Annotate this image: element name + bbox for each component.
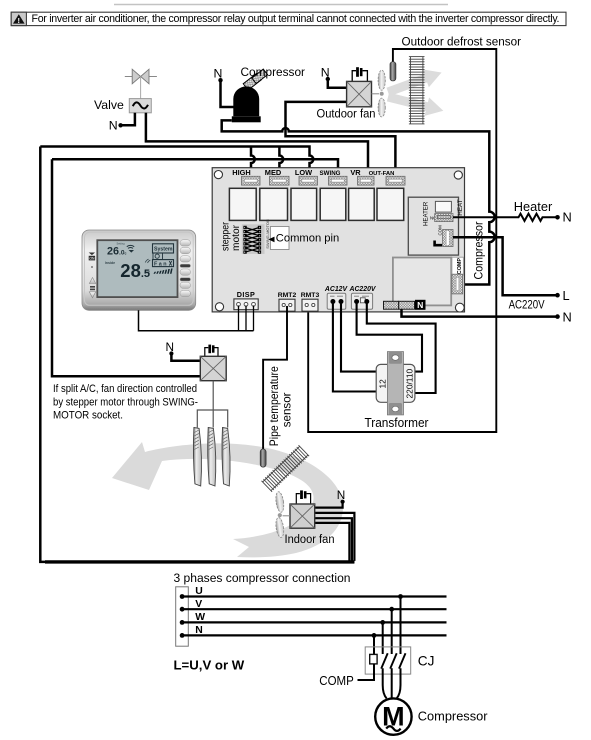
svg-text:Pipe temperature: Pipe temperature [268,366,281,446]
connector SWING-MOTOR (coil header) [242,224,265,254]
svg-text:220/110: 220/110 [404,369,414,399]
svg-text:CJ: CJ [418,653,435,668]
connector RMT2 [279,299,295,311]
label stepper motor (rotated) [221,222,242,251]
svg-text:Compressor: Compressor [418,708,488,723]
outdoor fan capacitor [352,67,367,81]
connector VR [358,176,375,185]
defrost sensor capsule [390,62,396,81]
outdoor fan N terminal [321,65,347,87]
L terminal [555,288,569,303]
stepper motor box [200,356,226,380]
svg-text:N: N [563,210,572,225]
contactor switch W [381,653,388,668]
wire AC220V pin to transformer (inner) [357,302,422,372]
wire U drop [400,597,402,655]
svg-text:For inverter air conditioner,: For inverter air conditioner, the compre… [32,13,560,25]
airflow swoosh arrow [112,442,343,557]
wire compressor to COMP connector [222,120,495,284]
relay K1 [229,188,256,220]
thermostat display unit [82,230,196,310]
wire N to contactor coil [373,635,375,654]
connector NO (heat) [435,214,453,222]
svg-text:by stepper motor through SWING: by stepper motor through SWING- [53,396,198,408]
indoor fan N terminal [315,488,346,508]
wire inner rail to stepper motor [52,159,200,376]
relay K6 [377,188,404,220]
stepper motor capacitor [205,345,218,357]
contactor switch U [399,653,406,668]
wire AC12V left pin to transformer [333,302,376,392]
svg-text:AC220V: AC220V [348,286,376,293]
svg-text:HEATER: HEATER [423,201,430,226]
mounting hole BR [455,303,464,312]
mounting hole TR [454,171,462,179]
svg-text:SWING: SWING [320,170,341,177]
connector AC12V [327,293,346,309]
svg-text:N: N [563,309,572,324]
label Pipe temperature sensor (rotated) [268,366,294,446]
valve N terminal [109,113,135,133]
svg-text:LOW: LOW [295,168,312,177]
wire RMT2 to pipe sensor [263,306,287,449]
wire HIGH line [40,147,313,182]
svg-text:motor: motor [231,224,242,251]
connector AC220V [351,293,372,309]
svg-text:AC220V: AC220V [509,298,546,312]
svg-text:System: System [154,247,173,253]
louver bracket [197,381,227,428]
main control board [212,168,464,312]
wire SWING line [52,159,338,181]
svg-text:N: N [417,300,423,310]
svg-text:Outdoor fan: Outdoor fan [317,106,376,120]
wire HIGH vertical [251,147,255,182]
valve coil box [129,99,151,113]
svg-text:COMP: COMP [457,258,463,275]
indoor fan capacitor [296,490,310,504]
Common pin arrow [268,237,274,243]
indoor fan wires to bottom bundle [315,513,355,561]
heater N terminal [555,210,572,225]
compressor N terminal [214,67,234,107]
pipe sensor capsule [260,449,266,467]
svg-text:F a n: F a n [154,261,167,267]
svg-text:RMT2: RMT2 [278,292,297,299]
connector SWING [329,176,348,185]
wire MED vertical [279,147,283,182]
wire NO to heater resistor to N [453,214,558,221]
black L mark [435,241,442,246]
louver blade 1 [193,428,201,487]
indoor heat-exchanger coil (diagonal) [262,445,310,492]
svg-text:Valve: Valve [94,98,124,112]
svg-text:Transformer: Transformer [365,415,430,430]
if-split note text [53,383,198,422]
svg-text:MED: MED [265,168,282,177]
wire W drop [382,622,384,654]
svg-text:sensor: sensor [281,392,294,427]
svg-text:N: N [109,119,118,133]
outdoor fan motor [347,81,372,106]
svg-text:M: M [382,701,405,731]
svg-text:Compressor: Compressor [241,65,306,79]
svg-text:COMP: COMP [319,673,354,688]
wire AC220V square pin to transformer (outer) [367,302,436,394]
relay K5 [349,188,375,220]
svg-text:If split A/C, fan direction co: If split A/C, fan direction controlled [53,383,197,395]
connector MED [270,176,290,185]
outdoor heat-exchanger coil [409,57,425,124]
svg-text:Outdoor defrost sensor: Outdoor defrost sensor [402,35,522,49]
svg-text:Heater: Heater [514,199,553,214]
relay K4 [320,188,346,220]
compressor pipes [243,69,267,90]
outdoor fan blades [372,70,386,117]
wire V drop [391,609,393,654]
connector OUT-FAN [386,176,405,185]
connector RMT3 [302,299,318,311]
warning banner [11,12,566,25]
svg-text:COM: COM [438,225,443,236]
connector DISP [234,299,258,310]
contactor switch V [390,653,397,668]
svg-text:ON: ON [89,257,95,261]
mounting hole TL [214,171,222,179]
contactor CJ box [365,647,411,674]
wire COM to L terminal [453,237,558,295]
AC220V N terminal [555,309,572,324]
svg-text:°c: °c [146,270,151,276]
wire bottom bundle (thick) [45,560,354,563]
outdoor airflow arrows [385,64,445,101]
connector N hatched pair [384,301,415,309]
connector LOW [299,176,318,185]
connector COMP [452,274,463,294]
svg-text:DISP: DISP [237,290,255,299]
svg-text:3 phases compressor connection: 3 phases compressor connection [174,571,351,585]
svg-text:SWING-MOTOR: SWING-MOTOR [265,219,270,249]
wire left outer rail + bottom [40,147,354,562]
wires contactor to motor [383,668,387,698]
svg-text:VR: VR [350,168,361,177]
svg-text:N: N [337,488,346,502]
phase line W [180,612,447,625]
terminal strip [176,587,189,646]
svg-text:Compressor: Compressor [471,222,485,280]
compressor body [232,86,261,122]
wire valve to VR connector [146,113,368,181]
svg-text:MOTOR socket.: MOTOR socket. [53,409,123,421]
heater relay [435,201,451,212]
mounting hole BL [215,303,223,311]
svg-text:12: 12 [377,379,387,389]
svg-text:L: L [563,288,570,303]
svg-text:!: ! [18,16,21,25]
heater sub-board [408,197,458,255]
wire outdoor fan to OUT-FAN connector [286,102,396,181]
svg-text:HEAT: HEAT [457,199,464,215]
indoor fan blades [275,491,290,538]
indoor fan motor [290,504,315,528]
phase line N [180,625,447,638]
motor M (compressor) [375,698,411,734]
wire AC12V right pin to transformer [341,302,376,372]
connector HIGH [242,176,261,185]
DISP wires [239,306,254,331]
contactor coil [370,654,377,664]
phase line V [180,599,447,612]
wire defrost sensor to RMT3 [308,49,496,432]
white box near Common pin [270,227,289,250]
label COMP + wire to coil [319,664,374,688]
phase line U [180,586,447,599]
transformer body [376,352,415,415]
svg-text:L=U,V or W: L=U,V or W [174,657,245,672]
svg-text:Common pin: Common pin [276,233,339,245]
wire thermostat to DISP [139,310,254,330]
svg-text:HIGH: HIGH [232,168,250,177]
svg-text:RMT3: RMT3 [301,292,320,299]
svg-text:AC12V: AC12V [324,286,349,293]
label COMP (rotated) [452,257,464,275]
N black box [415,300,426,310]
svg-text:Indoor fan: Indoor fan [285,532,335,546]
top crop line [114,4,448,6]
louver blade 2 [208,428,216,487]
wire board N to N terminal [402,309,558,316]
power sub-board [393,258,451,306]
valve symbol (bowtie) [125,69,157,98]
louver blade 3 [222,428,230,487]
relay K2 [260,188,288,220]
stepper N terminal [166,340,201,361]
connector COM [443,230,453,247]
svg-text:Inside: Inside [105,261,115,265]
relay K3 [291,188,317,220]
